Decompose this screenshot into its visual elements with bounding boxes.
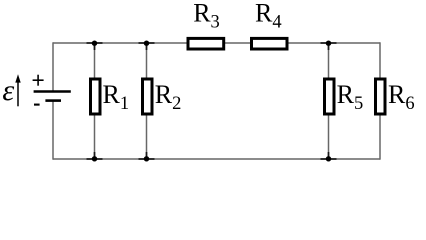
resistor R5 [325, 79, 335, 114]
wire R1 branch [94, 43, 96, 159]
svg-text:R4: R4 [255, 0, 282, 33]
battery minus sign [34, 104, 40, 106]
node top R5 junction [321, 41, 337, 51]
resistor R2 [143, 79, 153, 114]
wire bottom rail [53, 158, 380, 160]
svg-text:ε: ε [2, 74, 14, 107]
wire left (battery branch lower) [52, 101, 54, 160]
node bottom R2 junction [139, 152, 155, 162]
wire R5 branch [328, 43, 330, 159]
svg-text:R2: R2 [155, 80, 182, 114]
node bottom R1 junction [87, 152, 103, 162]
battery short plate (negative) [45, 99, 61, 102]
wire top rail [53, 42, 380, 44]
wire left (battery branch upper) [52, 42, 54, 91]
battery long plate (positive) [34, 90, 71, 93]
battery plus sign [33, 75, 44, 86]
svg-text:R3: R3 [193, 0, 220, 33]
node top R2 junction [139, 41, 155, 51]
resistor R6 [376, 79, 386, 114]
node top R1 junction [87, 41, 103, 51]
svg-text:R5: R5 [337, 80, 364, 114]
resistor R1 [91, 79, 101, 114]
wire right (R6 branch) [379, 42, 381, 159]
svg-text:R6: R6 [388, 80, 415, 114]
resistor R4 [252, 38, 288, 49]
wire R2 branch [146, 43, 148, 159]
node bottom R5 junction [321, 152, 337, 162]
resistor R3 [188, 38, 224, 49]
svg-text:R1: R1 [103, 80, 130, 114]
EMF arrow [15, 74, 20, 106]
